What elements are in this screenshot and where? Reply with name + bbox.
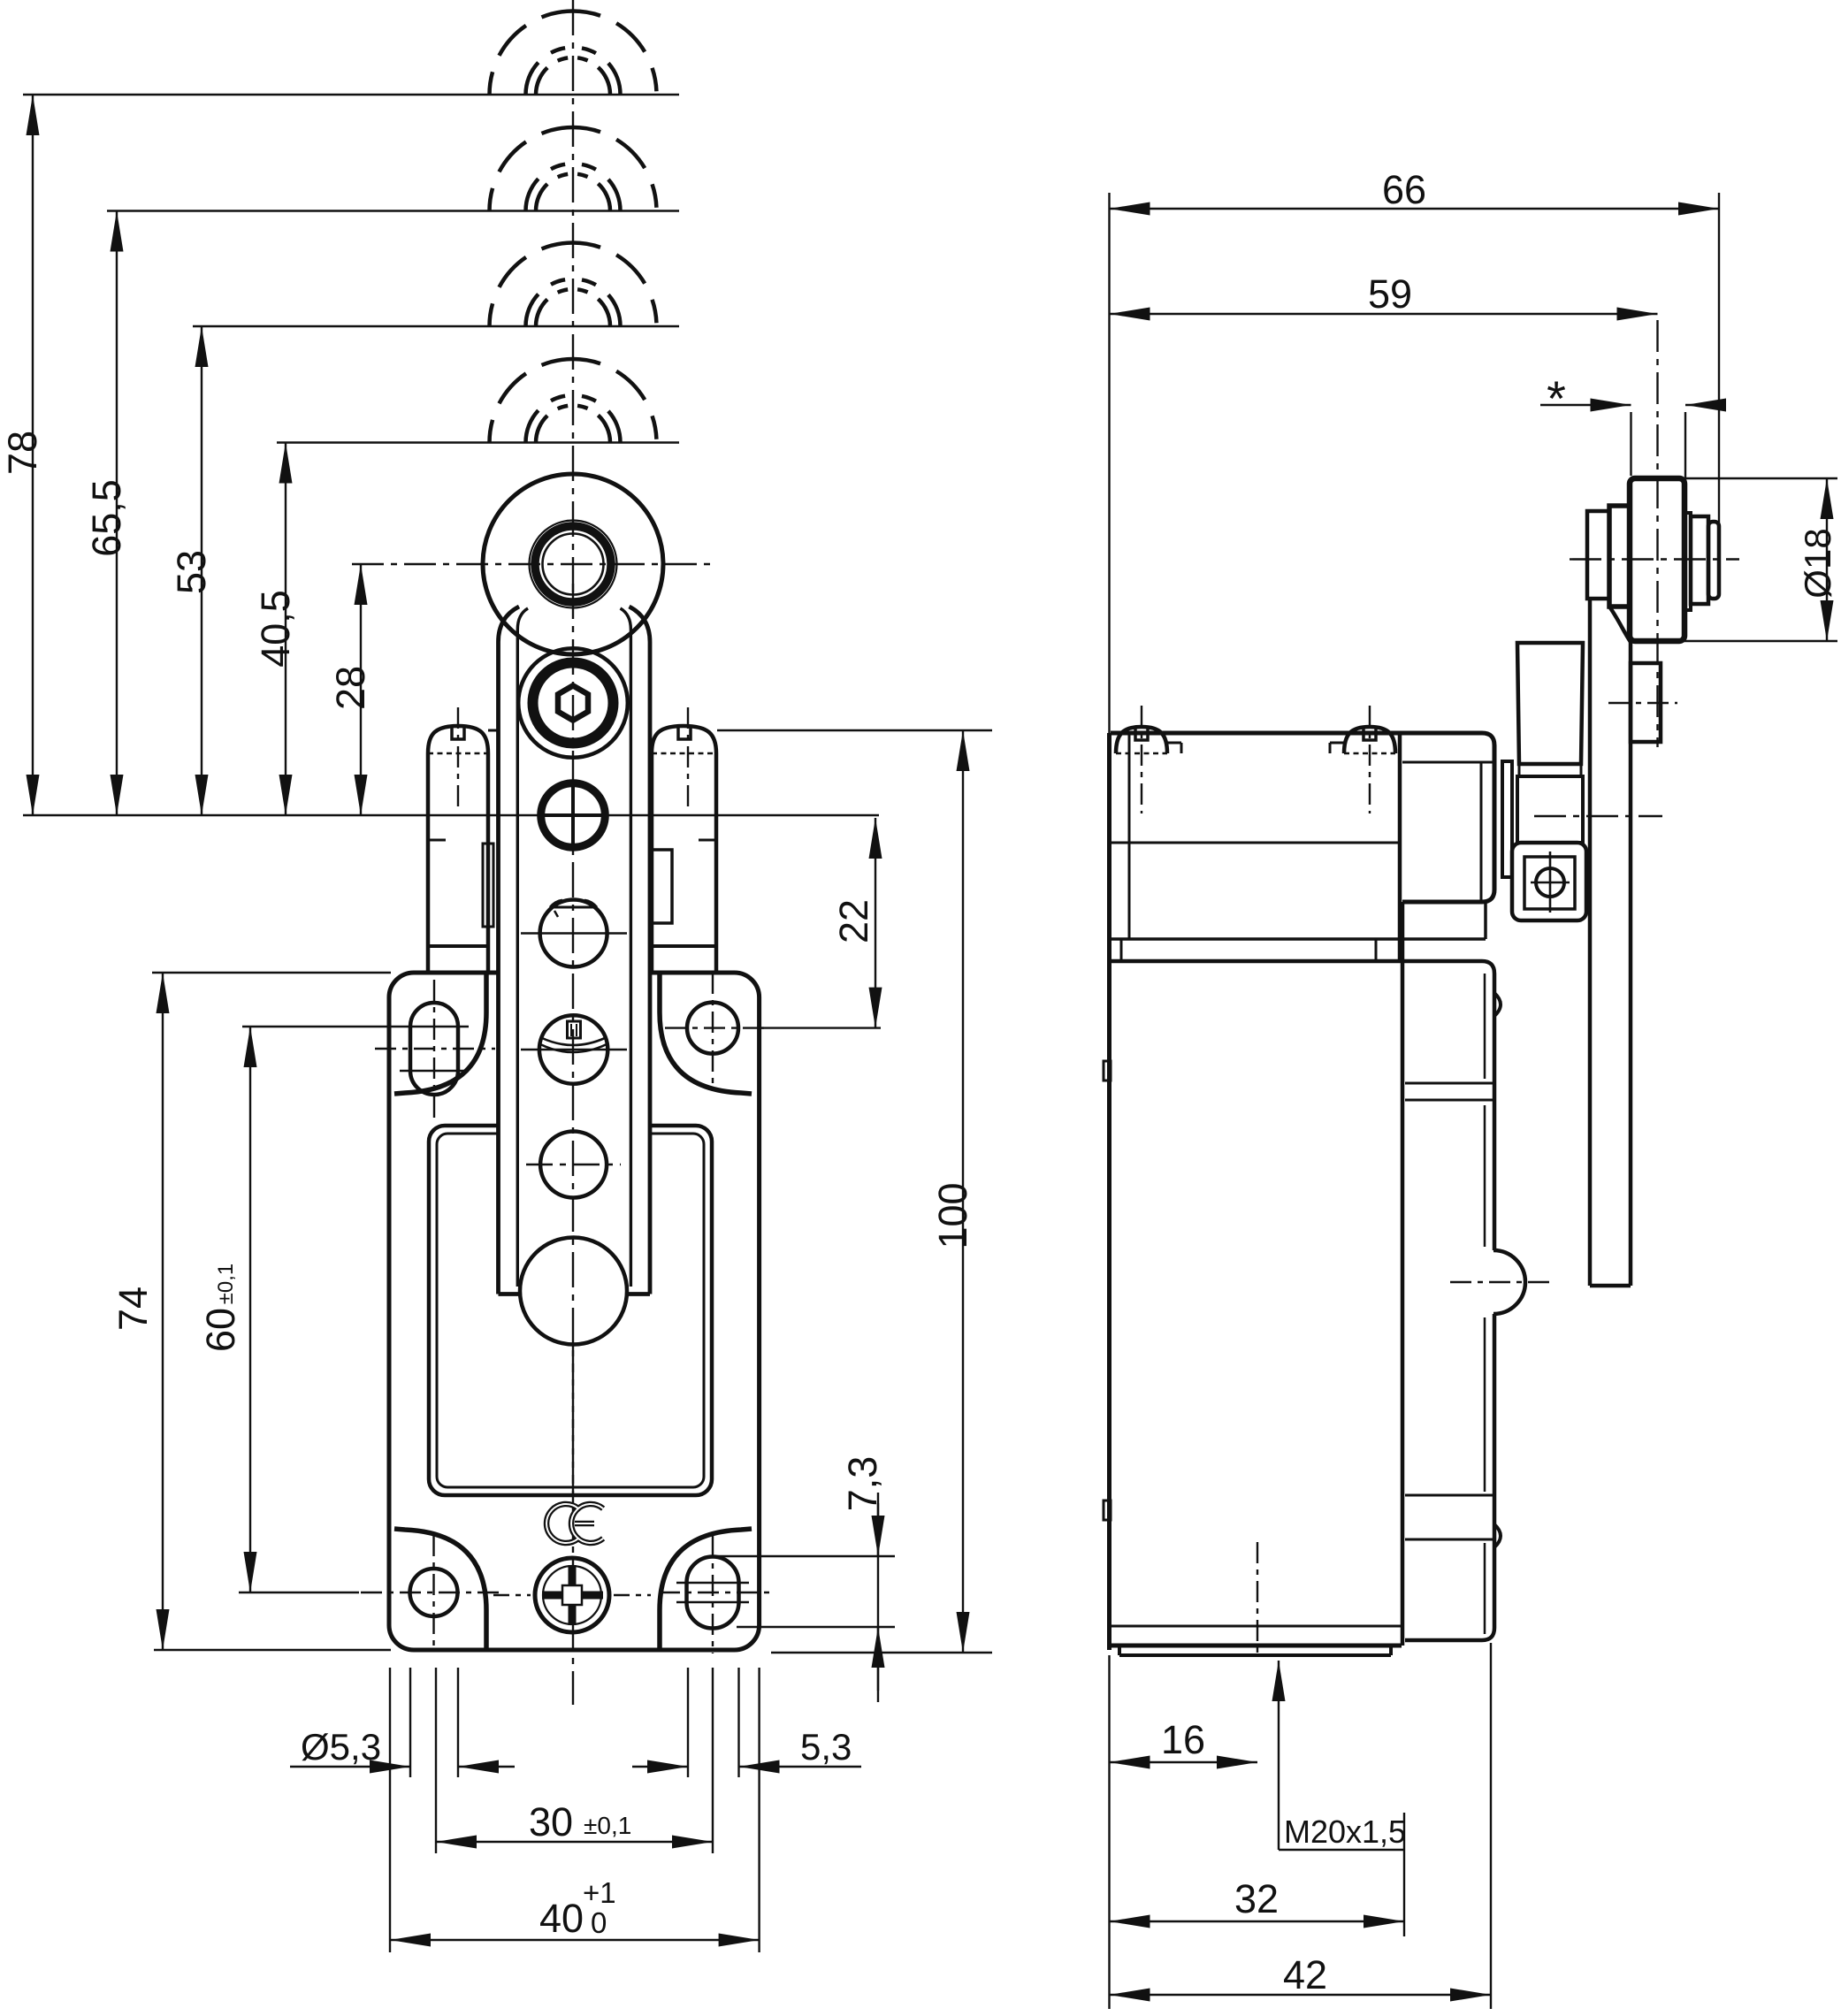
pivot centerline (side)	[1534, 815, 1662, 817]
dimension 7,3	[716, 1456, 895, 1702]
clamp block with screw	[1512, 843, 1586, 920]
extension line: lever position 53	[193, 325, 679, 327]
centerline: front view vertical axis	[572, 0, 574, 1705]
phantom roller arcs position 3	[490, 243, 657, 327]
left head pillar	[428, 753, 493, 973]
right head pillar	[652, 753, 716, 973]
svg-text:Ø18: Ø18	[1797, 528, 1838, 598]
lever hole with key slot	[521, 1015, 627, 1083]
axle end cap	[1708, 522, 1719, 599]
mounting hole top-right	[665, 973, 769, 1089]
roller horizontal centerline	[1570, 558, 1739, 560]
block centerline	[1608, 702, 1677, 704]
svg-text:53: 53	[169, 550, 214, 594]
dimension 22	[831, 818, 876, 1028]
dimension 60 +-0,1 (hole spacing)	[198, 1027, 400, 1592]
left screw centerline	[457, 707, 459, 812]
centerline over bar	[572, 584, 574, 1503]
side body top line	[1111, 959, 1405, 964]
svg-text:5,3: 5,3	[800, 1726, 852, 1768]
extension line: lever position 65,5	[107, 210, 679, 211]
dimension 16	[1110, 1717, 1258, 1762]
svg-text:28: 28	[328, 666, 373, 710]
side view body back face	[1107, 733, 1111, 1650]
left head screw	[428, 726, 488, 753]
side view head	[1111, 733, 1494, 961]
roller lever end (front view)	[483, 474, 663, 654]
flange pocket top-right	[660, 973, 752, 1094]
right screw centerline	[687, 707, 689, 812]
dimension diameter 18	[1632, 478, 1838, 641]
back face tab upper	[1104, 1061, 1111, 1081]
svg-text:M20x1,5: M20x1,5	[1284, 1814, 1406, 1850]
svg-text:32: 32	[1234, 1876, 1279, 1921]
svg-text:Ø5,3: Ø5,3	[301, 1726, 381, 1768]
left screw centerline	[1141, 706, 1142, 813]
flange pocket top-left	[394, 973, 486, 1094]
dimension 40 +1/0	[390, 1876, 760, 1941]
roller (side view)	[1630, 478, 1684, 641]
svg-text:22: 22	[831, 899, 876, 943]
lever plain hole	[526, 1132, 621, 1198]
lever arm bar (front view)	[499, 607, 651, 1342]
lever hub block	[1517, 643, 1583, 764]
dimension 5,3 right	[632, 1726, 861, 1768]
bottom cover screw (phillips)	[493, 1558, 651, 1632]
top plane line	[488, 729, 652, 732]
pivot screw (phillips)	[541, 783, 606, 848]
mounting hole top-left (slot)	[375, 980, 495, 1119]
dimension 78 (lever height)	[0, 95, 45, 815]
dimension 100	[717, 730, 992, 1653]
svg-text:±0,1: ±0,1	[584, 1812, 631, 1839]
dimension diameter 5,3 left	[290, 1726, 515, 1768]
flange pocket bottom-left	[394, 1529, 486, 1650]
phantom roller arcs position 2	[490, 127, 657, 211]
phantom roller arcs position 4	[490, 359, 657, 443]
hub neck	[1517, 764, 1583, 843]
lever bottom hole	[520, 1238, 627, 1345]
M20 gland centerline	[1257, 1542, 1258, 1657]
dimension 74 (flange height)	[111, 973, 391, 1650]
back face tab lower	[1104, 1501, 1111, 1520]
baseline over bar	[499, 814, 651, 816]
cover plate (front)	[429, 1126, 712, 1495]
side body bottom	[1111, 1626, 1402, 1655]
svg-text:40: 40	[539, 1896, 584, 1941]
side view left screw	[1116, 727, 1181, 753]
svg-text:60: 60	[198, 1308, 243, 1352]
CE mark	[546, 1504, 603, 1543]
extension line for 22 dim	[759, 1027, 881, 1028]
roller vertical centerline	[1656, 320, 1658, 747]
roller washer A	[1587, 511, 1609, 599]
extension line: lever position 40,5	[277, 441, 679, 443]
axle stub	[1691, 516, 1708, 604]
extension line: pivot baseline y=922	[23, 814, 879, 816]
extension lines below body	[390, 1668, 760, 1952]
svg-text:65,5: 65,5	[84, 479, 129, 557]
svg-text:16: 16	[1161, 1717, 1205, 1762]
axle washer right	[1684, 513, 1691, 610]
mounting hole bottom-left	[361, 1535, 502, 1652]
side view right screw	[1330, 727, 1395, 753]
cover panel (side view)	[1402, 961, 1494, 1646]
svg-text:+1: +1	[583, 1876, 616, 1909]
switch body flange outline	[389, 973, 760, 1650]
dimension * (roller width)	[1540, 370, 1715, 513]
svg-text:±0,1: ±0,1	[214, 1264, 238, 1305]
dimension 28 (lever height)	[328, 564, 373, 815]
dimension 30 +-0,1	[436, 1799, 713, 1844]
dimension 42	[1110, 1643, 1492, 2009]
svg-text:100: 100	[930, 1182, 975, 1249]
flange pocket bottom-right	[660, 1529, 752, 1650]
dimension 66	[1110, 167, 1720, 523]
svg-text:42: 42	[1283, 1952, 1327, 1997]
extension line: lever position 78	[23, 94, 679, 95]
arm top block	[1631, 663, 1661, 742]
plunger centerline	[1450, 1281, 1554, 1283]
extension line back face down	[1108, 1655, 1110, 2009]
svg-text:74: 74	[111, 1287, 156, 1331]
dimension 53 (lever height)	[169, 326, 214, 815]
svg-text:0: 0	[591, 1906, 607, 1939]
svg-text:66: 66	[1382, 167, 1426, 212]
dimension 32	[1110, 1813, 1405, 1936]
hex socket bolt on lever	[518, 648, 628, 758]
right screw centerline	[1369, 706, 1371, 813]
cover screw bump top	[1494, 993, 1501, 1016]
svg-text:30: 30	[529, 1799, 573, 1844]
right head screw	[652, 726, 716, 753]
phantom roller arcs position 1	[490, 11, 657, 95]
dimension 59	[1110, 271, 1658, 317]
svg-text:40,5: 40,5	[253, 590, 298, 668]
svg-text:78: 78	[0, 431, 45, 475]
lever hole with keyway	[521, 900, 627, 967]
roller washer B	[1609, 506, 1630, 607]
extension line back face up	[1108, 193, 1110, 733]
svg-text:7,3: 7,3	[840, 1456, 885, 1512]
mounting hole bottom-right (slot)	[659, 1536, 769, 1653]
dimension 40,5 (lever height)	[253, 443, 298, 816]
lever arm (side view)	[1590, 599, 1631, 1286]
M20x1,5 label with leader	[1279, 1661, 1406, 1850]
plunger bump	[1493, 1250, 1525, 1314]
cover screw bump bottom	[1494, 1524, 1501, 1547]
shaft coupling	[1502, 761, 1512, 877]
svg-text:59: 59	[1368, 271, 1412, 317]
centerline: roller horizontal axis	[352, 563, 712, 565]
svg-text:*: *	[1547, 370, 1566, 426]
dimension 65,5 (lever height)	[84, 211, 129, 816]
